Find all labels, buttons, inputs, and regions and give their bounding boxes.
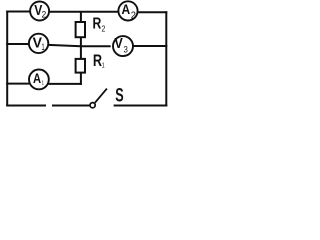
svg-text:1: 1 [42, 42, 45, 53]
wire: right vertical border of loop [165, 11, 167, 106]
wire: bottom border right piece [114, 105, 168, 107]
wire: middle row left segment [6, 43, 29, 45]
svg-text:2: 2 [131, 10, 136, 21]
wire: bottom border left piece [6, 105, 46, 107]
switch S blade (open) [95, 89, 107, 103]
label R2 [93, 14, 106, 34]
ammeter A2 [118, 1, 137, 21]
svg-text:V: V [114, 35, 123, 51]
label R1 [93, 53, 105, 71]
wire: center branch from top row down to R2 [80, 12, 82, 22]
svg-text:A: A [122, 1, 131, 17]
resistor R1 (box) [76, 59, 85, 73]
label S [115, 85, 124, 106]
wire: left vertical border of loop [6, 11, 8, 107]
svg-text:3: 3 [123, 44, 127, 55]
svg-text:V: V [33, 35, 43, 51]
resistor R2 (box) [76, 22, 85, 37]
wire: top row right segment [138, 11, 168, 13]
wire: middle row right segment [133, 45, 168, 47]
wire: center branch from R2 through middle row to R1 [80, 37, 82, 59]
ammeter A1 [29, 70, 49, 90]
voltmeter V2 [30, 2, 49, 21]
wire: top row middle segment [49, 11, 118, 13]
svg-text:2: 2 [41, 10, 46, 20]
svg-text:2: 2 [101, 24, 105, 34]
svg-text:R: R [93, 53, 103, 71]
wire: bottom lead from gap to switch pivot [52, 105, 90, 107]
wire: bottom meter row left segment [6, 83, 29, 85]
switch S pivot circle [90, 103, 95, 108]
svg-text:A: A [33, 71, 41, 86]
wire: middle row center segment [48, 45, 110, 46]
wire: center branch from R1 down to bottom meter row [80, 73, 82, 85]
svg-text:R: R [93, 14, 102, 32]
voltmeter V1 [29, 34, 48, 53]
voltmeter V3 [113, 35, 133, 56]
wire: bottom meter row right segment joining center branch [48, 83, 82, 85]
svg-text:1: 1 [102, 62, 105, 70]
svg-text:1: 1 [42, 80, 45, 87]
svg-text:S: S [115, 85, 124, 106]
wire: top row left segment [6, 11, 30, 13]
